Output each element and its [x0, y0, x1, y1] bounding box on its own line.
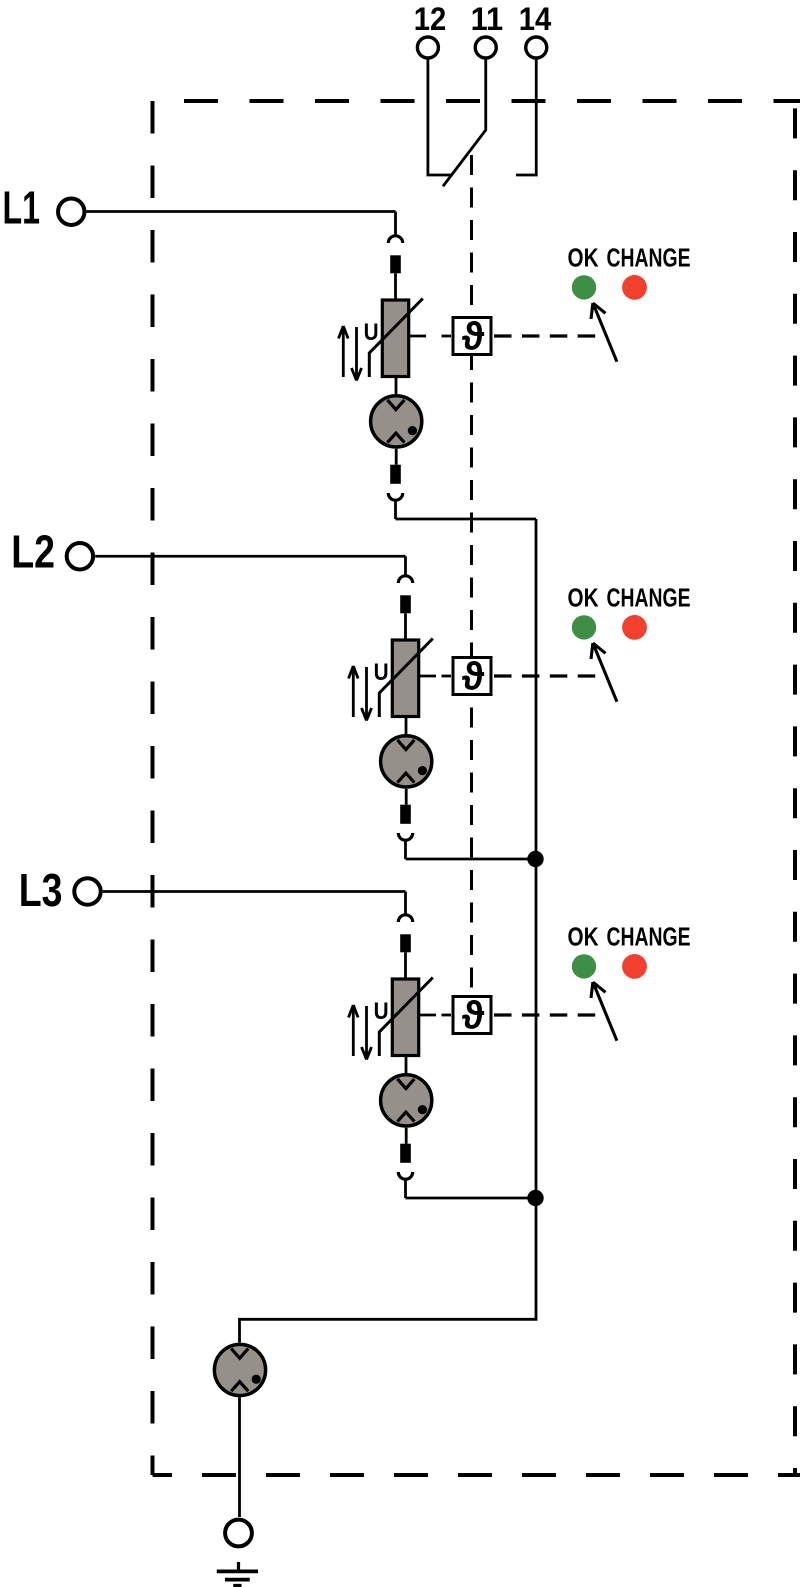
svg-text:L3: L3: [19, 864, 63, 916]
svg-text:11: 11: [471, 1, 504, 37]
svg-text:L1: L1: [3, 182, 41, 234]
svg-text:12: 12: [414, 1, 447, 37]
svg-text:L2: L2: [11, 526, 55, 578]
svg-text:14: 14: [519, 1, 552, 37]
